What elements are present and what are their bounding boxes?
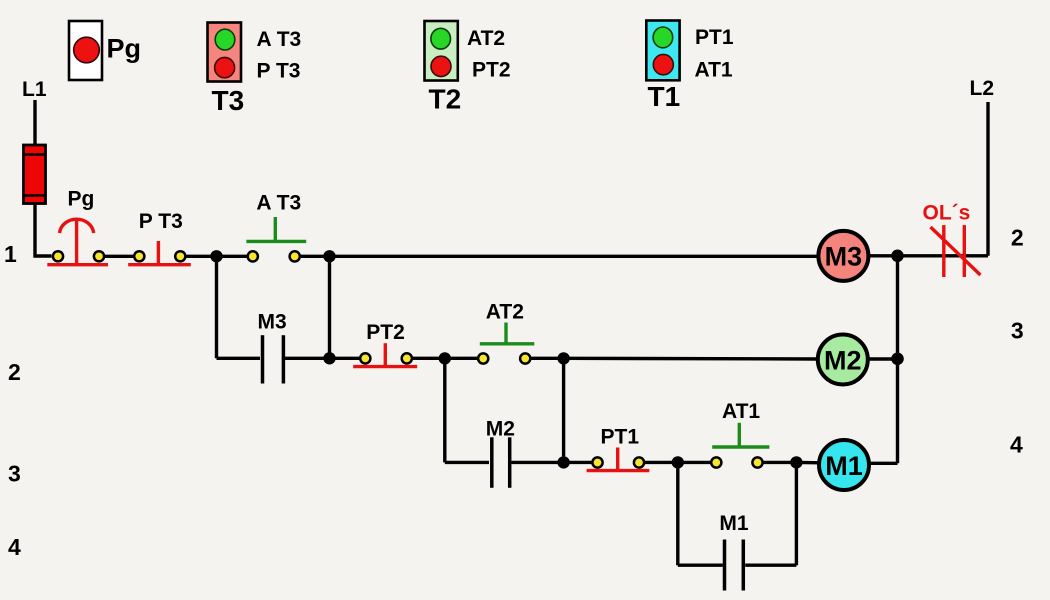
coil M3	[818, 231, 868, 281]
wire node D to AT2	[445, 357, 478, 360]
svg-text:PT2: PT2	[366, 321, 405, 344]
wire coil M3 to right bus	[868, 254, 988, 257]
pushbutton PT1 stem	[616, 448, 619, 470]
wire node G to AT1	[678, 461, 711, 464]
pushbutton PT2 terminal right	[402, 353, 412, 363]
svg-text:AT2: AT2	[467, 27, 505, 50]
wire node B down to rung 2	[328, 256, 331, 358]
overload OL's contact left blade	[942, 225, 945, 277]
svg-text:P T3: P T3	[257, 60, 301, 83]
svg-text:AT1: AT1	[722, 400, 760, 423]
wire AT2 to node E	[531, 357, 564, 360]
svg-text:1: 1	[4, 241, 17, 267]
indicator box T1	[646, 21, 679, 81]
svg-text:2: 2	[1011, 225, 1024, 251]
contact M3 left plate	[261, 335, 265, 383]
indicator box T3	[208, 23, 242, 82]
pushbutton PT1 terminal right	[634, 457, 644, 467]
junction node E	[557, 352, 569, 364]
svg-text:M1: M1	[719, 512, 748, 535]
pushbutton AT3 stem	[274, 217, 277, 241]
pushbutton PT3 NC bridge	[128, 263, 191, 266]
wire coil M2 to right bus	[868, 357, 898, 360]
overload OL's slash	[931, 227, 981, 275]
wire node F to PT1	[564, 461, 592, 464]
wire contact M2 to node F	[512, 461, 564, 464]
coil M2	[818, 335, 868, 385]
svg-text:4: 4	[8, 534, 21, 560]
junction node B	[323, 250, 335, 262]
svg-text:3: 3	[8, 461, 21, 487]
svg-text:M2: M2	[824, 345, 862, 375]
pushbutton AT3 terminal left	[248, 251, 258, 261]
svg-text:M3: M3	[825, 242, 863, 272]
junction right bus rung 2	[891, 353, 904, 366]
fuse F1 top band	[24, 153, 46, 156]
svg-text:Pg: Pg	[68, 188, 95, 211]
wire rung 2 to coil M2	[564, 357, 818, 361]
pushbutton AT3 NO bridge	[246, 240, 306, 243]
pushbutton Pg NC bridge	[47, 263, 108, 266]
wire L1 to fuse	[33, 100, 36, 146]
svg-text:M1: M1	[825, 451, 863, 481]
T3 green lamp	[215, 29, 235, 50]
svg-text:4: 4	[1010, 432, 1023, 458]
T2 green lamp	[431, 28, 451, 49]
wire node H down to seal rung	[795, 462, 798, 565]
pushbutton AT2 terminal left	[478, 353, 488, 363]
contact M1 left plate	[723, 540, 727, 591]
pushbutton AT1 NO bridge	[712, 445, 769, 448]
junction node D	[439, 352, 451, 364]
wire Pg to PT3	[105, 255, 134, 258]
contact M2 left plate	[490, 437, 494, 488]
svg-text:3: 3	[1011, 318, 1024, 344]
svg-text:2: 2	[8, 359, 21, 385]
pushbutton AT2 stem	[504, 323, 507, 343]
pushbutton AT1 terminal left	[711, 457, 721, 467]
pushbutton Pg terminal right	[94, 251, 104, 261]
svg-text:AT2: AT2	[486, 300, 524, 323]
svg-text:M2: M2	[486, 417, 515, 440]
pushbutton Pg stem	[75, 219, 78, 263]
wire rung 3 left to contact M2	[445, 461, 489, 464]
wire seal rung to contact M1	[678, 564, 723, 567]
coil M1	[819, 440, 869, 490]
wire PT1 to node G	[645, 461, 678, 464]
pushbutton PT2 terminal left	[360, 353, 370, 363]
wire fuse to rung 1	[35, 203, 52, 256]
fuse F1 bottom band	[24, 194, 46, 197]
wire rung 1 to coil M3	[330, 255, 821, 258]
pushbutton PT2 stem	[384, 343, 387, 365]
svg-text:AT1: AT1	[695, 59, 733, 82]
wire PT3 to node A	[186, 255, 217, 258]
pushbutton PT3 terminal right	[175, 251, 185, 261]
svg-text:T1: T1	[648, 81, 681, 112]
svg-text:P T3: P T3	[139, 210, 183, 233]
wire contact M3 to node C	[285, 357, 330, 360]
junction node G	[672, 456, 684, 468]
wire node G down to seal rung	[676, 462, 679, 565]
Pg legend lamp lens	[74, 37, 100, 63]
svg-text:Pg: Pg	[107, 34, 142, 64]
junction node A	[210, 250, 222, 262]
pilot light Pg legend box	[69, 21, 102, 80]
pushbutton AT2 NO bridge	[480, 342, 535, 345]
svg-text:A T3: A T3	[256, 192, 301, 215]
pushbutton PT1 NC bridge	[587, 469, 650, 472]
svg-text:PT1: PT1	[601, 426, 640, 449]
svg-text:OL´s: OL´s	[923, 202, 971, 225]
T2 red lamp	[431, 56, 451, 76]
pushbutton PT3 terminal left	[134, 251, 144, 261]
pushbutton AT3 terminal right	[290, 251, 300, 261]
svg-text:M3: M3	[258, 310, 287, 333]
fuse F1 body	[24, 145, 46, 204]
svg-text:T2: T2	[429, 84, 462, 115]
junction node F	[557, 456, 569, 468]
svg-text:A T3: A T3	[257, 28, 302, 51]
contact M1 right plate	[742, 540, 746, 591]
wire node H to coil M1	[796, 461, 822, 465]
junction right bus rung 1	[891, 250, 904, 263]
pushbutton Pg mushroom head	[60, 219, 94, 233]
T1 green lamp	[653, 27, 673, 48]
wire node C to PT2	[330, 357, 360, 360]
wire coil M1 to right bus	[868, 462, 898, 465]
svg-text:L1: L1	[22, 78, 47, 101]
svg-text:L2: L2	[970, 77, 995, 100]
indicator box T2	[425, 21, 458, 81]
T1 red lamp	[653, 54, 673, 74]
pushbutton AT1 stem	[738, 423, 741, 446]
pushbutton PT2 NC bridge	[353, 365, 417, 368]
wire rung 2 left to contact M3	[217, 357, 261, 360]
svg-text:T3: T3	[212, 85, 245, 116]
pushbutton AT1 terminal right	[752, 457, 762, 467]
contact M2 right plate	[508, 437, 512, 488]
pushbutton PT1 terminal left	[592, 457, 602, 467]
T3 red lamp	[215, 57, 235, 77]
wire node E down to rung 3	[562, 358, 565, 462]
wire L2 drop	[986, 102, 989, 256]
contact M3 right plate	[282, 335, 286, 383]
wire AT1 to node H	[763, 461, 796, 464]
wire node A to AT3	[217, 255, 248, 258]
svg-text:PT1: PT1	[695, 26, 734, 49]
pushbutton PT3 stem	[157, 241, 160, 263]
wire node A down to rung 2	[215, 256, 218, 358]
wire node D down to rung 3	[443, 358, 446, 462]
wire contact M1 to node H leg	[745, 564, 796, 567]
svg-text:PT2: PT2	[472, 59, 511, 82]
wire PT2 to node D	[413, 357, 445, 360]
junction node H	[790, 456, 802, 468]
wire AT3 to node B	[301, 255, 330, 258]
pushbutton AT2 terminal right	[520, 353, 530, 363]
junction node C	[323, 352, 335, 364]
pushbutton Pg terminal left	[53, 251, 63, 261]
overload OL's contact right blade	[963, 225, 966, 277]
wire right bus vertical	[896, 256, 899, 463]
